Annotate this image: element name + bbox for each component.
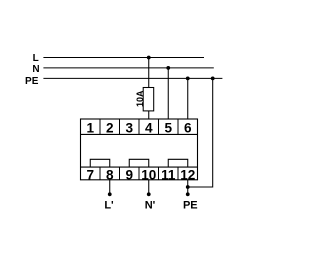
junction dot L to fuse [147, 56, 151, 60]
wire N line to terminal 5 [167, 68, 169, 120]
wire terminal 10 to N' output [148, 180, 150, 195]
svg-text:4: 4 [145, 120, 153, 135]
wire terminal 12 to PE output [187, 180, 189, 195]
svg-text:PE: PE [183, 200, 198, 212]
wire N bus line [43, 67, 213, 69]
device top terminal strip bottom edge [81, 133, 198, 135]
svg-text:5: 5 [164, 120, 172, 135]
node N' terminal dot [147, 192, 151, 196]
svg-text:2: 2 [106, 120, 114, 135]
node L' terminal dot [108, 192, 112, 196]
svg-text:L: L [33, 53, 39, 64]
svg-text:N: N [32, 64, 39, 75]
wire PE right return vertical and horizontal to node under terminal 12 [188, 78, 213, 187]
jumper link terminals 9-10 [129, 159, 149, 167]
junction dot N to terminal 5 [166, 66, 170, 70]
wire fuse bottom to terminal 4 [148, 111, 150, 120]
svg-text:3: 3 [125, 120, 133, 135]
wire PE bus line [43, 77, 222, 79]
svg-text:1: 1 [86, 120, 94, 135]
fuse F1 body [143, 88, 154, 111]
jumper link terminals 7-8 [90, 159, 110, 167]
node PE output terminal dot [186, 192, 190, 196]
wire L bus line [43, 57, 204, 59]
junction dot PE to right return [211, 77, 215, 81]
device body outline [81, 119, 198, 180]
svg-text:10A: 10A [135, 90, 145, 107]
svg-text:PE: PE [25, 76, 39, 87]
svg-text:7: 7 [86, 168, 94, 183]
svg-text:9: 9 [125, 168, 133, 183]
bottom strip cell separators [100, 167, 178, 180]
svg-text:L': L' [104, 200, 114, 212]
wire L line to fuse top [148, 58, 150, 89]
wire terminal 8 to L' output [109, 180, 111, 195]
svg-text:11: 11 [161, 168, 176, 183]
device bottom terminal strip top edge [81, 166, 198, 168]
junction dot PE return under terminal 12 [186, 185, 190, 189]
top strip cell separators [100, 119, 178, 134]
wire PE line to terminal 6 [187, 78, 189, 119]
junction dot PE to terminal 6 [186, 77, 190, 81]
svg-text:N': N' [145, 200, 156, 212]
svg-text:6: 6 [184, 120, 192, 135]
jumper link terminals 11-12 [168, 159, 188, 167]
